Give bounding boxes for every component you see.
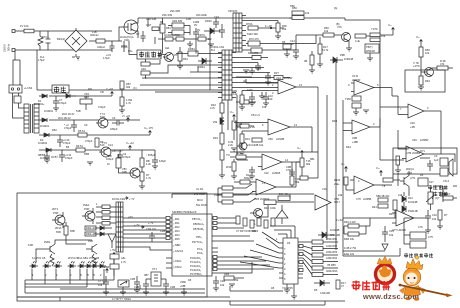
wire vertical bus2	[326, 95, 328, 240]
wire U3C input	[380, 96, 404, 115]
svg-text:U1F: U1F	[264, 171, 269, 175]
wire bottom bus2	[218, 262, 252, 273]
svg-text:ZD4 18.4V: ZD4 18.4V	[62, 112, 75, 116]
node AC line input 220V/50Hz	[3, 30, 16, 53]
resistor R70 270	[246, 37, 290, 46]
wire left drop to LCN2	[13, 50, 20, 86]
wire bot connects	[343, 218, 404, 244]
svg-text:Y8: Y8	[382, 184, 386, 188]
resistor R56 on top rail	[289, 6, 345, 20]
wire row y92	[155, 91, 222, 93]
svg-text:┌PA2: ┌PA2	[173, 225, 180, 229]
svg-text:9V: 9V	[194, 23, 197, 27]
svg-text:+ 5V: + 5V	[110, 248, 116, 252]
ground V83	[139, 186, 145, 189]
svg-text:1E1: 1E1	[165, 46, 170, 50]
resistor HR2 680	[168, 19, 190, 35]
svg-text:DR30: DR30	[205, 19, 212, 23]
diode DR5A	[176, 47, 222, 56]
wire vertical chain below CN1	[222, 100, 228, 175]
resistor R46 2.2k	[344, 220, 370, 228]
svg-text:32 B?: 32 B?	[51, 155, 58, 159]
svg-text:A6L: A6L	[121, 256, 126, 260]
svg-text:CN?: CN?	[146, 23, 152, 27]
svg-text:9V: 9V	[197, 28, 200, 32]
capacitor C36	[130, 276, 140, 290]
resistor 2R1A 65R	[55, 222, 68, 240]
label TB(T) plug	[365, 44, 379, 53]
capacitor C16	[213, 18, 219, 28]
diode D2 1N4001	[40, 118, 50, 128]
svg-text:C9A 52B: C9A 52B	[146, 17, 157, 21]
svg-text:PC1AX1┐: PC1AX1┐	[190, 260, 202, 264]
resistor R9	[76, 144, 85, 152]
op-amp U2B LM358	[265, 119, 312, 141]
svg-text:W13: W13	[226, 165, 232, 169]
op-amp U3F	[392, 210, 414, 232]
svg-text:U3C: U3C	[412, 138, 417, 142]
svg-text:D4R+2B: D4R+2B	[86, 232, 96, 236]
svg-text:4.4k: 4.4k	[355, 39, 361, 43]
svg-text:180μF: 180μF	[110, 127, 118, 131]
capacitor C10	[219, 24, 225, 38]
svg-text:2.2k: 2.2k	[250, 125, 256, 129]
svg-text:CB: CB	[100, 90, 104, 94]
svg-text:R4?: R4?	[389, 212, 394, 216]
diode VD1 1N4148	[318, 228, 340, 238]
svg-text:(B): (B)	[336, 22, 340, 26]
svg-text:65B: 65B	[70, 229, 75, 233]
svg-text:(V?1: (V?1	[410, 176, 416, 180]
label 电源 box	[52, 85, 69, 93]
resistor R36 fan	[236, 96, 256, 104]
node (A)	[243, 79, 247, 83]
resistor RM2 pullup	[222, 191, 254, 197]
diode network D4R rows	[85, 226, 112, 230]
svg-text:4.7k: 4.7k	[210, 106, 216, 110]
resistor R106 24k	[334, 177, 350, 190]
MCU left pin stubs	[166, 217, 172, 269]
label F+18	[265, 24, 272, 29]
resistor RM3 pullup	[218, 188, 256, 204]
svg-text:74LSP45: 74LSP45	[282, 286, 293, 290]
MCU right pin labels	[190, 217, 205, 276]
svg-text:PC7TBM┐: PC7TBM┐	[190, 272, 202, 276]
svg-text:D4R+2A: D4R+2A	[86, 226, 96, 230]
watermark magnifier ring	[376, 265, 395, 284]
watermark mascot staff	[399, 284, 453, 298]
label RP5/16k	[107, 154, 112, 166]
svg-text:10k: 10k	[432, 217, 437, 221]
svg-text:400k R5A: 400k R5A	[326, 269, 338, 273]
ground D4	[284, 284, 290, 293]
power arrow Vcc bot2	[376, 166, 382, 176]
svg-text:1.12k: 1.12k	[231, 92, 238, 96]
capacitor C40	[440, 188, 451, 202]
svg-text:R33: R33	[213, 136, 218, 140]
svg-text:R46 2.2W: R46 2.2W	[344, 220, 356, 224]
label +TV	[125, 197, 135, 201]
svg-text:10k: 10k	[389, 233, 394, 237]
resistor R48 47k	[432, 59, 453, 70]
svg-text:D4B: D4B	[224, 272, 229, 276]
transistor V1 switching MOSFET	[124, 20, 138, 34]
arrow down C33	[382, 244, 388, 250]
ground C41	[265, 82, 271, 85]
svg-text:┌PA3: ┌PA3	[173, 229, 180, 233]
svg-text:10k: 10k	[425, 51, 430, 55]
IC U1 MCU S3F880	[172, 210, 212, 276]
svg-text:Vcc 175: Vcc 175	[144, 126, 153, 130]
ground U1F	[231, 176, 237, 179]
svg-text:470μF: 470μF	[64, 126, 72, 130]
svg-text:LM35R: LM35R	[420, 138, 428, 142]
svg-text:A33B 10k: A33B 10k	[252, 143, 264, 147]
svg-text:+ 5V: + 5V	[100, 265, 106, 269]
resistor R3F 10k	[276, 21, 287, 37]
ground bot-right2	[425, 230, 431, 233]
resistor R41 10k	[278, 192, 290, 201]
svg-text:P0B: P0B	[214, 193, 219, 197]
ground crystal	[143, 292, 149, 295]
svg-text:LM35R: LM35R	[284, 76, 292, 80]
svg-text:R49: R49	[425, 79, 430, 83]
ground C6	[152, 166, 158, 169]
svg-text:R4A: R4A	[346, 145, 351, 149]
svg-text:9.4B 2.7W: 9.4B 2.7W	[344, 246, 357, 250]
svg-text:1B: 1B	[188, 278, 191, 282]
wire row y85	[140, 84, 222, 86]
resistor R26	[304, 51, 314, 70]
svg-text:┬NBD: ┬NBD	[172, 243, 180, 247]
wire D4 top verticals	[270, 226, 295, 238]
resistor R40 100k	[264, 200, 276, 210]
resistor T16 90k vert	[300, 156, 311, 172]
capacitor C9B 470pF	[286, 162, 295, 178]
svg-text:K1B: K1B	[28, 243, 33, 247]
ground U1F2	[249, 176, 255, 179]
resistor R35	[300, 172, 318, 180]
svg-text:C32: C32	[432, 213, 437, 217]
trimpot RP1	[426, 188, 440, 210]
ground U2A in1	[239, 107, 245, 110]
resistor R online	[438, 210, 448, 220]
svg-text:C?5: C?5	[428, 235, 433, 239]
svg-text:DR5A: DR5A	[188, 47, 195, 51]
svg-text:2KT1: 2KT1	[52, 207, 59, 211]
svg-text:MCU: MCU	[197, 198, 203, 202]
svg-text:510: 510	[268, 97, 273, 101]
capacitor C10 470uF	[57, 135, 71, 147]
svg-text:9VB: 9VB	[88, 239, 93, 243]
transistor VT1 PNP	[52, 207, 65, 228]
connector DCN1-CR2	[112, 197, 126, 252]
svg-text:├XSC1: ├XSC1	[173, 259, 182, 263]
capacitor C7 470uF	[53, 96, 67, 108]
transistor V76	[337, 25, 351, 45]
svg-text:20A 620k: 20A 620k	[196, 13, 208, 17]
LED LD4	[68, 261, 77, 277]
resistor R54	[303, 254, 338, 264]
svg-text:U3C: U3C	[410, 121, 415, 125]
ground R49	[418, 87, 424, 90]
resistor EAE 10k	[344, 246, 357, 256]
ground U2B1	[231, 148, 237, 151]
resistor R53	[303, 250, 338, 257]
svg-text:1N4001: 1N4001	[40, 124, 50, 128]
ground chain	[219, 175, 225, 178]
svg-text:10k: 10k	[98, 283, 103, 287]
svg-text:R10b: R10b	[334, 178, 341, 182]
svg-text:HR2 680: HR2 680	[172, 19, 183, 23]
svg-text:R40: R40	[264, 206, 269, 210]
transistor VP1	[163, 53, 179, 62]
resistor R57	[336, 280, 346, 289]
svg-text:V1b: V1b	[322, 187, 327, 191]
svg-text:470μF: 470μF	[98, 105, 106, 109]
optocoupler N2 box	[14, 96, 21, 103]
resistor ladder right of D4	[303, 237, 338, 244]
wire net U3D	[398, 130, 455, 162]
svg-text:R64: R64	[183, 57, 188, 61]
svg-text:1.7k: 1.7k	[146, 176, 152, 180]
svg-text:1N8148: 1N8148	[344, 57, 354, 61]
watermark text weiku	[352, 281, 390, 291]
resistor R13	[230, 151, 258, 159]
wire N line	[15, 49, 112, 51]
svg-text:LM35B: LM35B	[363, 197, 371, 201]
watermark mascot crown	[406, 256, 423, 270]
svg-text:C?: C?	[136, 32, 140, 36]
label key row	[32, 256, 99, 260]
svg-text:R9 51: R9 51	[76, 144, 83, 148]
svg-text:YT3: YT3	[102, 141, 107, 145]
op-amp U3C buffer	[404, 104, 441, 129]
connector XZ01-CN1	[212, 45, 236, 100]
resistor T1R 90k	[290, 172, 300, 187]
transistor V1C	[237, 142, 252, 150]
resistor R70A 390	[246, 22, 284, 36]
resistor R8 1.2k	[140, 154, 152, 170]
svg-text:1N4004: 1N4004	[38, 141, 48, 145]
svg-text:10k: 10k	[305, 11, 310, 15]
wire L line	[15, 30, 112, 32]
resistor 1.9W 1.7k vertical	[120, 90, 133, 110]
resistor R81	[160, 18, 171, 40]
op-amp U2A LM358	[275, 76, 318, 94]
wire vertical bus1	[317, 87, 319, 152]
svg-text:C2B 1Bn: C2B 1Bn	[160, 229, 171, 233]
resistor A33B 10k	[252, 138, 264, 147]
resistor R52	[303, 244, 338, 251]
svg-text:U50: U50	[268, 137, 273, 141]
svg-text:470k R51: 470k R51	[326, 237, 338, 241]
op-amp U3A LM339	[351, 74, 392, 96]
wire rail y150	[39, 149, 130, 151]
ground R3F	[275, 36, 281, 39]
resistor SBC1B pair	[376, 194, 390, 208]
ground primary small	[208, 44, 214, 47]
svg-text:10k: 10k	[324, 29, 329, 33]
op-amp U1F LM318	[258, 154, 300, 175]
svg-text:W9K2R: W9K2R	[366, 49, 375, 53]
ground extra left	[44, 160, 50, 163]
svg-text:R70A: R70A	[246, 22, 253, 26]
zener DR302	[204, 19, 220, 41]
svg-text:1B: 1B	[282, 40, 285, 44]
capacitor C12 470uF	[64, 120, 77, 132]
wire rail y135	[39, 134, 150, 136]
svg-text:XT1: XT1	[152, 267, 157, 271]
ground U2A c10	[263, 103, 269, 106]
svg-text:29A 32B: 29A 32B	[170, 9, 180, 13]
power arrow V1 +24	[122, 114, 131, 122]
DCN1 left pin resistors	[96, 205, 116, 225]
label CN5 chinese	[404, 253, 433, 258]
resistor R34	[220, 150, 230, 160]
transistor V73	[96, 112, 108, 128]
resistor DR7A	[198, 33, 210, 41]
svg-text:1μF: 1μF	[434, 158, 439, 162]
resistor R39 2.2k	[236, 124, 256, 129]
LED LD2	[43, 261, 52, 277]
transistor V83	[122, 167, 140, 178]
resistor R33	[213, 133, 224, 144]
svg-text:FB6SG1┐: FB6SG1┐	[193, 222, 205, 226]
svg-text:EAE 10k: EAE 10k	[344, 252, 355, 256]
svg-text:CN-4: CN-4	[443, 179, 450, 183]
svg-text:LM13B: LM13B	[276, 137, 284, 141]
crystal X1	[146, 267, 166, 286]
resistor R5 51	[78, 129, 87, 137]
svg-text:K.L PK1 LB: K.L PK1 LB	[32, 256, 46, 260]
svg-text:10k: 10k	[381, 34, 386, 38]
transistor Q3 with zigzag	[44, 240, 55, 266]
ground TB	[367, 53, 373, 61]
svg-text:100k R52: 100k R52	[326, 244, 338, 248]
svg-text:R44: R44	[372, 205, 377, 209]
svg-text:[A]: [A]	[334, 6, 337, 10]
svg-text:C2B: C2B	[170, 285, 175, 289]
svg-text:4.7 BYT? 7064A: 4.7 BYT? 7064A	[112, 297, 131, 301]
resistor R55	[303, 258, 338, 270]
svg-text:470μF: 470μF	[65, 156, 73, 160]
transistor V78	[413, 61, 434, 77]
ground below bridge	[72, 57, 80, 60]
node (C)	[133, 86, 137, 90]
wire rail +18 y95	[39, 95, 112, 97]
wire cluster links	[286, 35, 316, 50]
resistor W13	[226, 159, 236, 176]
resistor R61	[396, 156, 400, 170]
svg-text:100μF: 100μF	[106, 157, 114, 161]
power arrow mid	[297, 146, 303, 156]
resistor R60 10k	[316, 26, 342, 37]
svg-text:PC1┐: PC1┐	[197, 247, 204, 251]
svg-text:56L ROM: 56L ROM	[196, 203, 207, 207]
capacitor C22	[247, 88, 255, 103]
diode VD12	[402, 206, 418, 218]
svg-text:40k: 40k	[126, 85, 131, 89]
resistor R63	[443, 192, 453, 200]
resistor R50 10k	[419, 45, 430, 68]
svg-text:Y +18: Y +18	[106, 87, 113, 91]
svg-text:9017: 9017	[334, 200, 340, 204]
svg-text:+LCN2: +LCN2	[24, 86, 33, 90]
ground U2B2	[239, 152, 245, 155]
op-amp U4 LM358 audio	[400, 151, 430, 160]
svg-text:440k R54: 440k R54	[326, 256, 338, 260]
svg-text:9VB1: 9VB1	[44, 240, 51, 244]
diode D30	[198, 58, 212, 69]
wire U3B links	[343, 118, 380, 131]
svg-text:R?1: R?1	[420, 149, 425, 153]
svg-text:U51 U1: U51 U1	[251, 113, 260, 117]
svg-text:PC2AX2┐: PC2AX2┐	[190, 264, 202, 268]
ground U3A2	[363, 110, 369, 113]
svg-text:R?: R?	[444, 213, 448, 217]
svg-text:5B1: 5B1	[310, 157, 315, 161]
svg-text:U3 R: U3 R	[352, 74, 358, 78]
resistor D48 35k	[224, 272, 244, 282]
svg-text:VMR: VMR	[180, 280, 186, 284]
zener ZD4 18.4V	[62, 94, 76, 116]
svg-text:RB?/TB?: RB?/TB?	[112, 149, 123, 153]
wire transistor row link	[36, 240, 92, 262]
svg-text:D4: D4	[287, 241, 291, 245]
svg-text:560pF: 560pF	[244, 176, 252, 180]
svg-text:SBC1B 10k: SBC1B 10k	[376, 194, 390, 198]
resistor R71 pair	[370, 27, 393, 42]
op-amp U3D LM358	[402, 111, 441, 162]
svg-text:+ 7V: + 7V	[134, 223, 140, 227]
svg-text:CN414B: CN414B	[320, 291, 330, 295]
svg-text:2SK 639: 2SK 639	[162, 13, 173, 17]
svg-text:U2A: U2A	[276, 76, 281, 80]
LED LD6	[85, 261, 94, 277]
ground U2A c22	[249, 103, 255, 106]
power arrow Vs +12	[126, 141, 134, 150]
power arrow Vcc bot1	[341, 162, 347, 172]
svg-text:+ TV: + TV	[129, 197, 135, 201]
wire LCN2 to T1	[13, 93, 25, 118]
svg-text:4B?: 4B?	[144, 273, 149, 277]
svg-text:+4B: +4B	[410, 125, 415, 129]
svg-text:P077CA┐: P077CA┐	[192, 240, 204, 244]
capacitor C3 1.5uF	[103, 41, 115, 60]
wire primary verticals	[148, 18, 210, 90]
transistor V71	[400, 171, 416, 192]
wire LED bus verticals	[32, 258, 114, 287]
wire vertical bus4	[342, 100, 344, 256]
wire top rail primary	[138, 17, 292, 19]
resistor R14	[252, 56, 268, 60]
ground below VP1	[177, 66, 183, 69]
svg-text:90k: 90k	[306, 162, 311, 166]
diode D25	[213, 118, 224, 124]
ground C14	[293, 56, 299, 59]
wire bottom bus1	[230, 286, 283, 291]
svg-text:6.BμF: 6.BμF	[159, 159, 166, 163]
svg-text:25k: 25k	[213, 120, 218, 124]
resistor R45 vert	[389, 200, 397, 218]
capacitor C20 10n	[134, 223, 157, 242]
resistor R6	[95, 138, 105, 147]
svg-text:2R1A: 2R1A	[55, 226, 62, 230]
capacitor C10 510	[263, 92, 273, 103]
svg-text:S1?: S1?	[429, 180, 434, 184]
ground top cluster	[187, 41, 193, 47]
